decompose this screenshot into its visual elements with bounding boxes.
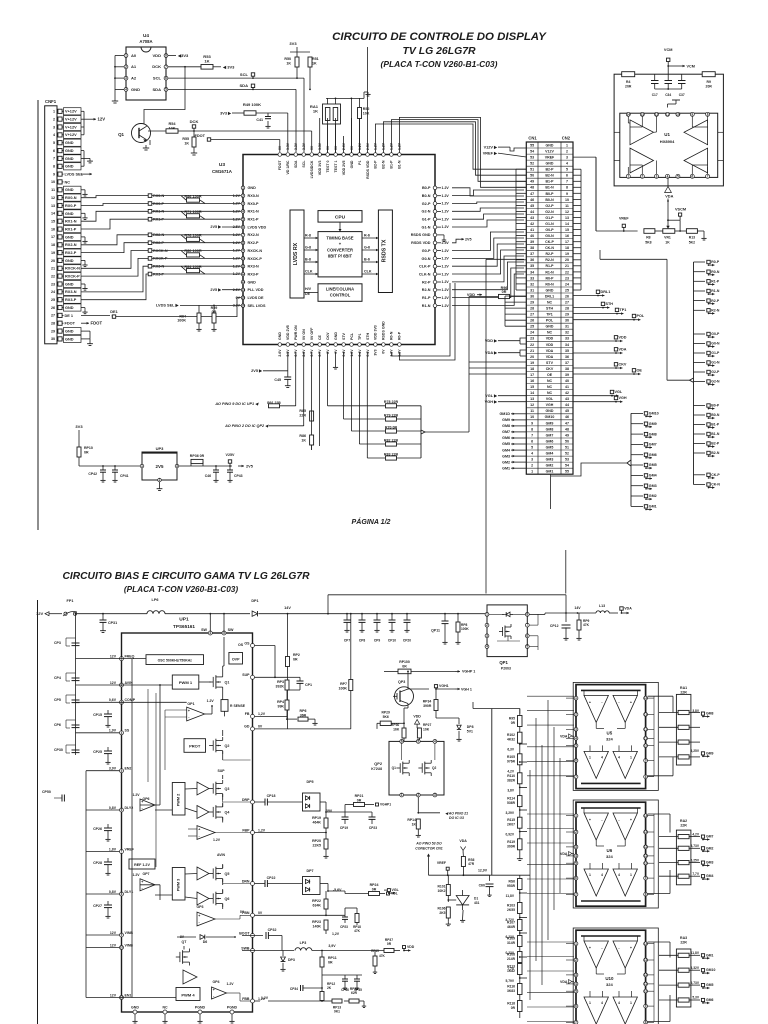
- node B2-N RSDS out: [694, 452, 706, 454]
- wire SCL from U4: [168, 77, 253, 79]
- svg-text:44: 44: [565, 403, 569, 407]
- svg-text:32: 32: [530, 282, 534, 286]
- IC U10 324: [576, 930, 646, 1024]
- svg-text:GND: GND: [65, 157, 74, 161]
- svg-text:R0-N: R0-N: [711, 270, 720, 274]
- svg-text:36: 36: [565, 355, 569, 359]
- svg-text:17: 17: [565, 240, 569, 244]
- svg-text:R119: R119: [507, 840, 515, 844]
- svg-text:2V5: 2V5: [156, 464, 164, 469]
- svg-text:RP100: RP100: [399, 660, 410, 664]
- svg-text:CP34: CP34: [290, 987, 298, 991]
- U5 op-amp C: [584, 751, 608, 778]
- svg-text:Q1: Q1: [225, 681, 230, 685]
- svg-text:SUP: SUP: [242, 673, 250, 677]
- capacitor CP42: [102, 466, 104, 470]
- svg-text:RXCK-N: RXCK-N: [248, 249, 263, 253]
- svg-text:CP22: CP22: [267, 876, 276, 880]
- svg-text:0V: 0V: [258, 911, 263, 915]
- svg-text:RSDS VDD: RSDS VDD: [366, 160, 370, 179]
- svg-text:CIRCUITO DE CONTROLE DO DISPLA: CIRCUITO DE CONTROLE DO DISPLAY: [332, 31, 547, 43]
- svg-text:CP25: CP25: [93, 750, 102, 754]
- arrow LVDS SEL pin9: [81, 173, 86, 175]
- svg-text:27: 27: [530, 313, 534, 317]
- svg-text:2V5: 2V5: [246, 464, 254, 468]
- svg-text:19: 19: [51, 251, 55, 255]
- svg-text:G1-N: G1-N: [545, 222, 554, 226]
- svg-text:G2-P: G2-P: [711, 370, 720, 374]
- RSDS bracket: [693, 262, 695, 485]
- wire VREF net vertical mid page: [485, 259, 487, 593]
- svg-text:GM9: GM9: [649, 422, 657, 426]
- svg-text:6: 6: [575, 876, 577, 880]
- svg-text:1: 1: [575, 942, 577, 946]
- diode DP3: [282, 951, 284, 957]
- svg-text:3: 3: [531, 458, 533, 462]
- R SENSE box: [221, 700, 228, 712]
- svg-text:2: 2: [486, 623, 488, 627]
- svg-text:G0-N: G0-N: [711, 342, 720, 346]
- svg-text:R1-N: R1-N: [422, 304, 431, 308]
- GM bracket: [630, 413, 632, 506]
- svg-text:12: 12: [644, 973, 648, 977]
- U10 top bus: [581, 935, 641, 937]
- svg-text:1: 1: [575, 696, 577, 700]
- svg-text:5: 5: [531, 445, 533, 449]
- svg-text:1,2V: 1,2V: [332, 932, 340, 936]
- wire RX1-N: [81, 211, 148, 221]
- wire DRN + capacitor CP22: [255, 883, 266, 885]
- svg-text:7: 7: [707, 174, 709, 178]
- svg-text:FP1: FP1: [67, 599, 74, 603]
- svg-text:FB: FB: [245, 712, 250, 716]
- svg-text:8: 8: [242, 241, 244, 245]
- svg-text:13: 13: [530, 397, 534, 401]
- svg-text:11: 11: [666, 112, 670, 116]
- svg-text:GM1D: GM1D: [499, 412, 510, 416]
- svg-text:10: 10: [676, 112, 680, 116]
- svg-text:NC: NC: [547, 379, 553, 383]
- svg-text:48: 48: [565, 427, 569, 431]
- svg-text:RSDS VDD: RSDS VDD: [411, 241, 431, 245]
- svg-text:0V OFF: 0V OFF: [310, 327, 314, 340]
- svg-text:23: 23: [51, 282, 55, 286]
- wire RXCK-P: [81, 258, 148, 276]
- svg-text:2: 2: [53, 117, 55, 121]
- svg-text:BOOT: BOOT: [239, 931, 250, 935]
- svg-text:G1-P: G1-P: [422, 218, 431, 222]
- svg-text:5K6: 5K6: [383, 715, 389, 719]
- svg-text:V+12V: V+12V: [65, 118, 77, 122]
- mosfet QP2-Q1: [402, 762, 404, 775]
- svg-text:1K: 1K: [301, 439, 306, 443]
- svg-text:PCL: PCL: [350, 332, 354, 340]
- svg-text:GM2: GM2: [546, 464, 554, 468]
- UP1 pin DLY1: [120, 892, 124, 896]
- IC U6 324: [576, 802, 646, 906]
- svg-text:5,3V: 5,3V: [692, 996, 700, 1000]
- svg-text:GND: GND: [350, 160, 354, 168]
- svg-text:431: 431: [474, 901, 480, 905]
- svg-text:12: 12: [51, 196, 55, 200]
- svg-text:GM5: GM5: [546, 445, 554, 449]
- svg-text:31: 31: [565, 325, 569, 329]
- svg-text:382R: 382R: [507, 778, 516, 782]
- svg-text:GND: GND: [248, 186, 257, 190]
- node GM6 output: [631, 454, 643, 456]
- svg-text:314R: 314R: [507, 941, 516, 945]
- svg-text:3V3: 3V3: [75, 424, 83, 429]
- svg-text:1.2V: 1.2V: [442, 186, 450, 190]
- svg-text:42: 42: [565, 391, 569, 395]
- internal OVP box: [229, 653, 243, 665]
- svg-text:464R: 464R: [507, 925, 516, 929]
- node R1-P RSDS out: [694, 280, 706, 282]
- svg-text:1.2V: 1.2V: [233, 202, 241, 206]
- svg-text:1: 1: [141, 464, 143, 468]
- amp triangle before Q3: [197, 782, 209, 795]
- svg-text:47: 47: [565, 421, 569, 425]
- U3 internal block LVDS RX: [290, 210, 304, 298]
- svg-text:TPS65161: TPS65161: [173, 624, 195, 629]
- svg-text:R116: R116: [507, 985, 515, 989]
- svg-text:16: 16: [565, 234, 569, 238]
- svg-text:R51: R51: [312, 57, 319, 61]
- svg-text:RX2-N: RX2-N: [248, 233, 260, 237]
- node B1-N RSDS out: [694, 433, 706, 435]
- svg-text:9: 9: [566, 192, 568, 196]
- svg-text:GM6: GM6: [706, 998, 714, 1002]
- svg-text:VDA: VDA: [560, 734, 568, 738]
- svg-text:OE: OE: [637, 368, 643, 372]
- svg-text:DRL1: DRL1: [545, 294, 554, 298]
- svg-text:R2-P: R2-P: [422, 280, 431, 284]
- svg-text:GM8: GM8: [706, 712, 714, 716]
- svg-text:CP6: CP6: [54, 723, 61, 727]
- svg-text:FBN: FBN: [242, 911, 250, 915]
- svg-text:12,9V: 12,9V: [478, 869, 488, 873]
- resistor R8 5K8: [644, 229, 655, 234]
- svg-text:0R: 0R: [511, 721, 516, 725]
- svg-text:VSCM: VSCM: [675, 208, 686, 212]
- wire SDA to U3: [253, 88, 296, 90]
- node R2-N RSDS out: [694, 309, 706, 311]
- svg-text:1.2V: 1.2V: [442, 304, 450, 308]
- svg-text:5: 5: [417, 740, 419, 744]
- capacitor C17: [654, 74, 656, 80]
- svg-text:VDD ▶: VDD ▶: [485, 339, 498, 343]
- svg-text:RX1-P: RX1-P: [65, 228, 77, 232]
- svg-text:VREF ▶: VREF ▶: [483, 152, 498, 156]
- svg-text:8: 8: [566, 186, 568, 190]
- svg-text:49: 49: [565, 433, 569, 437]
- svg-text:324: 324: [606, 736, 614, 741]
- svg-text:2K07: 2K07: [507, 823, 515, 827]
- svg-text:FDOT: FDOT: [65, 322, 76, 326]
- IC U6 324 outer wiring: [573, 800, 658, 908]
- svg-text:7: 7: [575, 775, 577, 779]
- gnd pin 20: [81, 259, 85, 261]
- U4 pin 4 GND: [124, 88, 128, 92]
- node VDA out: [620, 607, 623, 610]
- svg-text:DRL1: DRL1: [601, 290, 611, 294]
- U10 op-amp B: [613, 941, 637, 968]
- resistor ladder upper: [491, 709, 493, 876]
- svg-text:12V: 12V: [36, 611, 44, 616]
- svg-text:B1-N: B1-N: [398, 160, 402, 169]
- svg-text:DE 1: DE 1: [65, 314, 74, 318]
- svg-text:LVDS SEL: LVDS SEL: [65, 173, 84, 177]
- svg-text:TP1: TP1: [620, 308, 627, 312]
- svg-text:DP8: DP8: [467, 725, 474, 729]
- node G1-P RSDS out: [694, 352, 706, 354]
- wire B2-P route to CN1: [375, 124, 526, 169]
- svg-text:GM8: GM8: [546, 427, 554, 431]
- svg-text:16: 16: [241, 304, 245, 308]
- U6 top bus: [581, 807, 641, 809]
- node GM8 output: [631, 433, 643, 435]
- svg-text:GND: GND: [131, 1006, 139, 1010]
- svg-text:4,2V: 4,2V: [507, 769, 515, 773]
- svg-text:22R: 22R: [299, 414, 306, 418]
- svg-text:+: +: [589, 700, 591, 704]
- svg-text:10: 10: [530, 415, 534, 419]
- wires R0-N R0-P route right: [392, 283, 451, 356]
- U5 feedback wires right: [648, 695, 673, 697]
- svg-text:SDA: SDA: [294, 160, 298, 168]
- svg-text:G0-N: G0-N: [545, 234, 554, 238]
- svg-text:CP26: CP26: [93, 827, 102, 831]
- svg-text:GM6: GM6: [546, 439, 554, 443]
- svg-text:37: 37: [565, 361, 569, 365]
- svg-text:324: 324: [606, 982, 614, 987]
- U5 op-amp D: [613, 751, 637, 778]
- svg-text:R2-N: R2-N: [422, 288, 431, 292]
- svg-text:H/V: H/V: [305, 287, 312, 291]
- long vertical bus below U3: [295, 352, 297, 406]
- svg-text:GND: GND: [546, 288, 554, 292]
- svg-text:NC: NC: [547, 385, 553, 389]
- svg-text:3,32V: 3,32V: [691, 966, 700, 970]
- svg-text:43: 43: [530, 216, 534, 220]
- svg-text:-5,6V: -5,6V: [333, 888, 342, 892]
- svg-text:11,8V: 11,8V: [691, 951, 700, 955]
- svg-text:RSDS GND: RSDS GND: [411, 233, 431, 237]
- svg-text:CKV: CKV: [546, 367, 554, 371]
- svg-text:12V: 12V: [110, 681, 117, 685]
- svg-text:10: 10: [565, 198, 569, 202]
- svg-text:3: 3: [575, 845, 577, 849]
- svg-text:STH: STH: [366, 332, 370, 340]
- svg-text:12V: 12V: [110, 931, 117, 935]
- U10 op-amp C: [584, 997, 608, 1024]
- svg-text:G-6: G-6: [364, 246, 370, 250]
- wires U3 right pins to CN1: [452, 188, 524, 196]
- svg-text:7,7V: 7,7V: [692, 872, 700, 876]
- UP1 pin OS: [251, 644, 255, 648]
- U3 left pins: [241, 186, 245, 190]
- svg-text:16K: 16K: [393, 728, 400, 732]
- svg-text:13: 13: [51, 204, 55, 208]
- IC U5 324: [576, 685, 646, 789]
- capacitor CP7: [346, 614, 348, 620]
- wires STV CKV OE: [469, 361, 526, 363]
- svg-text:27: 27: [51, 314, 55, 318]
- svg-text:VDA: VDA: [619, 347, 627, 351]
- svg-text:46: 46: [565, 415, 569, 419]
- ladder rail join: [491, 874, 493, 876]
- svg-text:VDA: VDA: [560, 980, 568, 984]
- svg-text:Q4: Q4: [225, 811, 230, 815]
- wire RX0-P: [81, 204, 148, 206]
- svg-text:Q5: Q5: [225, 872, 230, 876]
- wire RX1-P: [81, 219, 148, 229]
- svg-text:3,9V: 3,9V: [109, 767, 117, 771]
- svg-text:13: 13: [565, 216, 569, 220]
- svg-text:CLK-N: CLK-N: [419, 272, 431, 276]
- svg-text:55: 55: [565, 470, 569, 474]
- svg-text:26: 26: [565, 294, 569, 298]
- svg-text:23: 23: [565, 276, 569, 280]
- svg-text:7: 7: [575, 892, 577, 896]
- svg-text:9: 9: [531, 421, 533, 425]
- svg-text:12V: 12V: [110, 943, 117, 947]
- node R2-P RSDS out: [694, 300, 706, 302]
- svg-text:22: 22: [530, 343, 534, 347]
- svg-text:VREF: VREF: [437, 861, 446, 865]
- svg-text:VGL: VGL: [546, 397, 554, 401]
- capacitor CP43: [229, 466, 231, 470]
- svg-text:2.6V: 2.6V: [278, 349, 282, 357]
- svg-text:R0-P: R0-P: [398, 331, 402, 340]
- svg-text:1: 1: [531, 470, 533, 474]
- svg-text:4: 4: [601, 1001, 603, 1005]
- svg-text:47R: 47R: [468, 862, 475, 866]
- svg-text:14: 14: [565, 222, 569, 226]
- node RX2-N: [148, 233, 152, 237]
- svg-text:R1-P: R1-P: [422, 296, 431, 300]
- svg-text:OS: OS: [244, 641, 250, 645]
- svg-text:VGH ▶: VGH ▶: [485, 400, 498, 404]
- svg-text:GM7: GM7: [706, 835, 714, 839]
- U1 top pin row: [626, 112, 630, 116]
- svg-text:GM9: GM9: [706, 751, 714, 755]
- svg-text:OP4: OP4: [212, 980, 219, 984]
- resistor R9 20R: [702, 72, 715, 77]
- svg-text:7: 7: [53, 157, 55, 161]
- svg-text:28: 28: [530, 307, 534, 311]
- svg-text:55: 55: [530, 143, 534, 147]
- svg-text:VDD: VDD: [546, 343, 554, 347]
- node GM2 output: [631, 495, 643, 497]
- svg-text:50: 50: [530, 174, 534, 178]
- svg-text:2V5 ▶: 2V5 ▶: [251, 369, 263, 373]
- amp triangle PWM4 top: [183, 970, 197, 984]
- svg-text:CONVERTER: CONVERTER: [327, 248, 353, 253]
- svg-text:RX2-P: RX2-P: [248, 241, 260, 245]
- svg-text:12: 12: [565, 210, 569, 214]
- svg-text:PÁGINA 1/2: PÁGINA 1/2: [352, 517, 391, 526]
- svg-text:R55: R55: [182, 137, 189, 141]
- svg-text:6,73V: 6,73V: [691, 981, 700, 985]
- svg-text:6: 6: [691, 174, 693, 178]
- svg-text:GND: GND: [65, 282, 74, 286]
- wire B2-N route to CN1: [383, 122, 526, 175]
- svg-text:13: 13: [241, 280, 245, 284]
- svg-text:CPU: CPU: [335, 215, 346, 221]
- svg-text:2: 2: [566, 150, 568, 154]
- U5 op-amp A: [584, 695, 608, 722]
- svg-text:12V: 12V: [98, 117, 106, 122]
- svg-text:7: 7: [575, 1020, 577, 1024]
- svg-text:V12V: V12V: [545, 150, 554, 154]
- svg-text:GM8: GM8: [502, 424, 510, 428]
- UP1 pin EN1: [120, 996, 124, 1000]
- node RXCK-P: [148, 257, 152, 261]
- svg-text:C46: C46: [205, 474, 211, 478]
- svg-text:POL: POL: [546, 319, 554, 323]
- svg-text:RP22: RP22: [312, 899, 321, 903]
- svg-text:TP1: TP1: [546, 313, 553, 317]
- top bus wire: [326, 97, 364, 99]
- svg-text:47: 47: [530, 192, 534, 196]
- svg-text:3,9V: 3,9V: [328, 944, 336, 948]
- svg-text:VDA: VDA: [459, 839, 467, 843]
- UP1 pin COMP: [120, 700, 124, 704]
- svg-text:6: 6: [526, 634, 528, 638]
- svg-text:CP4: CP4: [54, 676, 61, 680]
- svg-text:CN2: CN2: [562, 136, 571, 141]
- svg-text:G0-N: G0-N: [422, 257, 431, 261]
- svg-text:G2-N: G2-N: [422, 210, 431, 214]
- svg-text:GND: GND: [65, 337, 74, 341]
- svg-text:R13: R13: [689, 236, 695, 240]
- svg-text:1.2V: 1.2V: [442, 257, 450, 261]
- svg-text:TIMING BASE: TIMING BASE: [326, 236, 353, 241]
- svg-text:1,2V: 1,2V: [258, 828, 266, 832]
- U4 left common wire + ground: [114, 56, 116, 96]
- svg-text:GM3: GM3: [502, 454, 510, 458]
- svg-text:COMP: COMP: [125, 698, 136, 702]
- svg-text:R0-P: R0-P: [545, 276, 554, 280]
- svg-text:1K: 1K: [665, 241, 670, 245]
- svg-text:DRN: DRN: [242, 879, 250, 883]
- svg-text:SW: SW: [201, 628, 207, 632]
- svg-text:G1-N: G1-N: [422, 225, 431, 229]
- svg-text:QP1: QP1: [499, 660, 508, 665]
- svg-text:RX3-N: RX3-N: [248, 265, 260, 269]
- svg-text:6: 6: [566, 174, 568, 178]
- svg-text:GM5: GM5: [502, 442, 510, 446]
- svg-text:B1-P: B1-P: [711, 423, 720, 427]
- svg-text:3V3: 3V3: [289, 41, 297, 46]
- svg-text:UP3: UP3: [156, 446, 165, 451]
- svg-text:48: 48: [530, 186, 534, 190]
- svg-text:VGH: VGH: [619, 396, 627, 400]
- ground bracket pins 6-8: [81, 150, 84, 152]
- UP1 pin FBN: [251, 913, 255, 917]
- svg-text:1.2V: 1.2V: [132, 793, 140, 797]
- node RX3-P: [148, 272, 152, 276]
- svg-text:0V: 0V: [278, 145, 282, 150]
- U4 pin 1 A0: [124, 54, 128, 58]
- svg-text:2: 2: [575, 713, 577, 717]
- svg-text:R115: R115: [507, 818, 515, 822]
- wire GD to RP7: [255, 728, 351, 730]
- svg-text:3: 3: [53, 125, 55, 129]
- svg-text:B2-P: B2-P: [374, 160, 378, 169]
- svg-text:K72U8: K72U8: [371, 767, 382, 771]
